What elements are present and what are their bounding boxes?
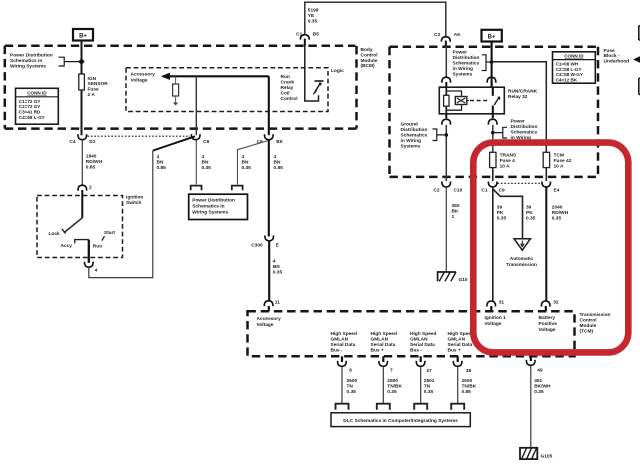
svg-text:0.35: 0.35 [497,215,507,221]
label Ignition Switch [126,195,143,207]
svg-text:C1: C1 [296,32,302,38]
svg-text:Automatic: Automatic [510,256,534,262]
wire ignition run feed loop [89,151,153,278]
svg-text:GMLAN: GMLAN [448,337,466,343]
connector pin 31 (TCM Ignition 1 Voltage) [487,300,504,312]
svg-text:BN: BN [242,160,249,166]
wire drop to C8 [195,76,197,135]
svg-text:49: 49 [537,368,543,374]
svg-text:Serial Data: Serial Data [371,342,396,348]
svg-text:C2=58 L-GY: C2=58 L-GY [556,67,582,72]
svg-text:CONN ID: CONN ID [564,54,584,59]
connector pin 11 (TCM top) [264,300,280,312]
connector on relay feed (B+ wire) [487,77,496,87]
svg-text:0.35: 0.35 [534,389,544,395]
dotted connector boundary line C9 to E4 [498,182,543,184]
connector C1 pin B5 (BCM top) [296,32,319,46]
svg-text:0.35: 0.35 [347,389,357,395]
svg-text:Distribution: Distribution [511,124,538,130]
terminal bracket (C8 branch) [191,186,202,191]
highlight annotation (red rounded rectangle) [473,143,628,353]
svg-text:C9: C9 [499,188,505,194]
svg-text:BK: BK [452,208,459,214]
svg-text:Accessory: Accessory [257,316,282,322]
svg-text:Positive: Positive [539,321,558,327]
svg-text:PK: PK [497,210,504,216]
svg-text:High Speed: High Speed [331,331,357,337]
svg-text:Fuse 4: Fuse 4 [500,158,516,164]
svg-text:Relay: Relay [281,85,294,91]
svg-text:Control: Control [580,318,597,324]
svg-text:CONN ID: CONN ID [27,91,47,96]
svg-text:YE: YE [308,13,315,19]
svg-text:4: 4 [95,267,98,273]
box DLC Schematics in Computer/Integrating Systems [331,413,470,427]
relay contact linkage (dashed) [470,100,488,102]
svg-text:Logic: Logic [331,68,344,74]
ground G10 [438,272,468,283]
svg-text:C1=08 WH: C1=08 WH [556,61,579,66]
wire C300 to TCM pin 11 (thick) [268,241,270,301]
label 4 BN 0.85 [274,154,284,171]
note Ground Distribution Schematics in Wiring Systems with bracket [401,122,449,150]
battery feed B+ (left) [73,29,93,41]
svg-text:TN/BK: TN/BK [462,384,477,390]
svg-text:Accy: Accy [61,243,73,249]
svg-text:Fuse: Fuse [604,48,616,54]
relay switch contact [493,87,501,114]
connector below relay (load side) [488,114,497,153]
svg-text:11: 11 [275,300,280,306]
svg-text:DLC Schematics in Computer/Int: DLC Schematics in Computer/Integrating S… [343,418,458,424]
svg-text:0.35: 0.35 [202,165,212,171]
svg-text:Underhood: Underhood [604,59,630,65]
svg-text:TN/BK: TN/BK [387,384,402,390]
svg-text:2040: 2040 [552,204,563,210]
connector pin 49 (TCM bottom ground) [526,356,543,373]
svg-text:Voltage: Voltage [131,78,148,84]
svg-text:0.35: 0.35 [273,269,283,275]
svg-text:Control: Control [281,96,298,102]
svg-text:2: 2 [89,185,92,191]
svg-text:38: 38 [466,368,472,374]
svg-text:Bus -: Bus - [410,348,422,354]
svg-text:6: 6 [349,368,352,374]
svg-text:C1: C1 [481,188,487,194]
label Run Crank Relay Coil Control [281,74,298,102]
svg-text:5199: 5199 [308,8,319,14]
wire 2500 TN/BK 0.35 (pin 7) [383,367,402,404]
svg-text:C2=72 GY: C2=72 GY [19,104,41,109]
svg-text:4: 4 [242,154,245,160]
svg-text:2500: 2500 [347,378,358,384]
svg-text:TN: TN [424,384,431,390]
svg-text:SENSOR: SENSOR [88,81,109,87]
svg-text:39: 39 [497,204,503,210]
svg-text:GMLAN: GMLAN [371,337,389,343]
label Transmission Control Module (TCM) [580,312,611,335]
svg-text:C4=68 L-GY: C4=68 L-GY [19,115,45,120]
connector pin E4 (fuse block bottom) [542,182,560,194]
svg-text:B5: B5 [313,32,319,38]
svg-text:0.85: 0.85 [462,389,472,395]
terminal bracket (pin 6 wire) [336,404,349,410]
svg-text:High Speed: High Speed [448,331,474,337]
svg-text:10 A: 10 A [500,163,510,169]
svg-text:Switch: Switch [126,200,142,206]
wire drop to B5 (thick) [268,76,270,135]
svg-text:RD/WH: RD/WH [552,210,569,216]
svg-text:G10: G10 [459,277,468,283]
svg-text:4: 4 [202,154,205,160]
off-page arrow (right edge) [633,56,640,62]
svg-text:0.35: 0.35 [308,19,318,25]
svg-text:Power Distribution: Power Distribution [192,197,235,203]
svg-text:BN: BN [202,160,209,166]
svg-text:G105: G105 [541,453,553,459]
connector C300 pin E [251,235,279,248]
svg-text:Schematics: Schematics [401,133,428,139]
label RUN/CRANK Relay 32 [508,88,538,100]
label High Speed GMLAN Serial Data Bus + (pin 38) [448,331,474,354]
label 4 BN 0.35 [242,154,252,171]
wire Accessory Voltage arrow line [161,73,269,80]
wire TRANS fuse to connector [492,168,494,181]
wire 5199 YE top rail [305,2,446,36]
label Ignition 1 Voltage (TCM input) [485,315,507,327]
svg-text:C2: C2 [434,32,440,38]
svg-text:2500: 2500 [462,378,473,384]
fuse TRANS Fuse 4 10A [490,152,517,169]
wire 39 PK to TCM pin 31 [493,187,507,301]
wire C8 to ignition (thick diagonal) [153,136,195,150]
Transmission Control Module (TCM) dashed box [248,311,575,356]
note Power Distribution Schematics (relay output) with bracket [491,119,537,147]
svg-text:Crank: Crank [281,79,295,85]
svg-text:2 A: 2 A [88,92,96,98]
svg-text:4: 4 [274,154,277,160]
svg-text:0.35: 0.35 [387,389,397,395]
svg-text:Serial Data: Serial Data [331,342,356,348]
svg-text:Voltage: Voltage [485,321,502,327]
note Power Distribution Schematics in Wiring Systems (left) with bracket [10,53,85,70]
connector C2 pin C10 (fuse block bottom) [433,182,462,194]
svg-text:C10: C10 [454,188,463,194]
svg-text:Systems: Systems [453,71,473,77]
svg-text:Accessory: Accessory [131,72,156,78]
svg-text:Distribution: Distribution [453,55,480,61]
svg-text:Distribution: Distribution [401,127,428,133]
svg-text:Block -: Block - [604,53,620,59]
svg-text:C3=41 RD: C3=41 RD [19,110,41,115]
resistor (BCM internal pull-up) [173,76,179,105]
svg-text:Ignition: Ignition [126,195,143,201]
svg-text:BN: BN [274,160,281,166]
svg-text:C4=12 BK: C4=12 BK [556,78,578,83]
svg-text:in Wiring: in Wiring [401,138,422,144]
svg-text:Schematics in: Schematics in [192,203,224,209]
wire 1840 RD/WH 0.85 [82,140,102,185]
svg-text:Transmission: Transmission [580,312,611,318]
svg-text:0.35: 0.35 [552,215,562,221]
svg-text:Schematics in: Schematics in [10,58,42,64]
svg-text:0.85: 0.85 [86,165,96,171]
wire branch to TCM fuse [492,62,547,153]
svg-text:C4: C4 [69,139,75,145]
svg-text:High Speed: High Speed [410,331,436,337]
svg-text:TN: TN [347,384,354,390]
svg-text:Wiring Systems: Wiring Systems [10,64,46,70]
label High Speed GMLAN Serial Data Bus + (pin 7) [371,331,397,354]
connector 2 (ignition switch) [78,185,92,196]
svg-text:Module: Module [580,323,597,329]
wire 2500 TN/BK 0.85 (pin 38) [458,367,477,404]
wire C8 branch to power distribution [195,140,197,185]
note Power Distribution Schematics (fuse block top) with bracket [453,49,494,77]
connector pin 6 (TCM bottom) [338,356,353,373]
label Accessory Voltage (BCM output) [131,72,156,84]
terminal bracket (B5 branch) [232,186,243,191]
svg-text:BK/WH: BK/WH [534,384,551,390]
connector C2 pin A5 (fuse block top) [434,32,460,47]
ground G105 [520,448,553,460]
svg-text:Schematics: Schematics [511,130,538,136]
connector C1 pin C9 (fuse block bottom) [481,182,505,194]
svg-text:Body: Body [361,47,373,53]
svg-text:in Wiring: in Wiring [453,66,474,72]
connector C6 pin B5 (BCM bottom) [257,134,283,145]
terminal bracket (pin 7 wire) [377,404,390,410]
svg-text:(BCM): (BCM) [361,63,376,69]
svg-text:Power: Power [511,119,526,125]
svg-text:E4: E4 [554,188,560,194]
svg-text:31: 31 [499,300,505,306]
svg-text:1: 1 [452,214,455,220]
ignition switch dashed box [37,196,123,258]
label 5199 YE 0.35 [308,8,319,25]
svg-text:C1=72 GY: C1=72 GY [19,99,41,104]
svg-text:A5: A5 [454,32,460,38]
svg-text:Serial Data: Serial Data [448,342,473,348]
battery feed B+ (right) [482,30,502,42]
transistor driver (BCM logic output) [305,43,324,102]
wire 2501 TN 0.35 (pin 37) [421,367,435,404]
label Accessory Voltage (TCM input) [257,316,282,328]
fuse TCM Fuse 42 10A [543,152,571,169]
wire 451 BK/WH 0.35 to G105 [531,366,551,448]
splice triangle Automatic Transmission [506,239,537,268]
ignition switch internals [49,196,116,263]
connector pin 37 (TCM bottom) [416,356,432,374]
wire B+ to IGN SENSOR fuse [81,41,83,136]
svg-text:TRANS: TRANS [500,152,517,158]
svg-text:(TCM): (TCM) [580,329,594,335]
off-page box fragment (right) [639,78,640,94]
label Fuse Block - Underhood [604,48,630,65]
svg-text:Run: Run [93,243,102,249]
svg-text:1840: 1840 [86,154,97,160]
wire B5 branch to power distribution [238,141,269,185]
label Body Control Module (BCM) [361,47,378,69]
svg-text:C2: C2 [433,188,439,194]
CONN ID table (BCM) [16,88,59,124]
wire 39 PK branch to automatic transmission [493,190,535,239]
relay coil circuit [444,87,469,114]
svg-text:Module: Module [361,58,378,64]
svg-text:C8: C8 [203,139,209,145]
svg-text:32: 32 [553,300,559,306]
svg-text:Relay 32: Relay 32 [508,94,528,100]
svg-text:39: 39 [526,204,532,210]
svg-text:Voltage: Voltage [257,322,274,328]
svg-text:Transmission: Transmission [506,262,537,268]
svg-text:4: 4 [157,154,160,160]
relay RUN/CRANK Relay 32 box [439,87,504,114]
connector pin 38 (TCM bottom) [453,356,471,374]
box Power Distribution Schematics in Wiring Systems [189,194,248,219]
wire 350 BK 1 to G10 [446,187,460,272]
svg-text:IGN: IGN [88,76,97,82]
svg-text:0.35: 0.35 [526,215,536,221]
svg-text:Power Distribution: Power Distribution [10,53,53,59]
wire B+ to RUN/CRANK relay (thick) [491,42,493,88]
svg-text:Systems: Systems [401,144,421,150]
label High Speed GMLAN Serial Data Bus - (pin 6) [331,331,357,354]
svg-text:Serial Data: Serial Data [410,342,435,348]
svg-text:2501: 2501 [424,378,435,384]
fuse block underhood dashed box [390,47,599,177]
svg-text:0.35: 0.35 [242,165,252,171]
dotted connector boundary line C4 to C8 [88,135,191,137]
svg-text:BN: BN [273,264,280,270]
connector C8 (BCM bottom) [191,134,209,145]
svg-text:D1: D1 [89,139,95,145]
svg-text:Ignition 1: Ignition 1 [485,315,507,321]
svg-text:TCM: TCM [554,152,564,158]
svg-text:451: 451 [534,378,542,384]
off-page box fragment (top right) [639,26,640,40]
terminal bracket (pin 37 wire) [414,404,427,410]
label 4 BN 0.35 [202,154,212,171]
svg-text:2500: 2500 [387,378,398,384]
svg-text:Voltage: Voltage [539,327,556,333]
svg-text:B5: B5 [276,139,282,145]
svg-text:GMLAN: GMLAN [331,337,349,343]
connector pin 32 (TCM Battery Positive Voltage) [541,300,558,312]
connector below relay (ground side) [442,114,451,181]
svg-text:Start: Start [104,230,115,236]
wire TCM fuse to connector [545,168,547,181]
svg-text:0.85: 0.85 [274,165,284,171]
svg-text:RUN/CRANK: RUN/CRANK [508,88,538,94]
svg-text:Run: Run [281,74,290,80]
label Battery Positive Voltage (TCM input) [539,315,558,333]
svg-text:7: 7 [390,368,393,374]
CONN ID table (fuse block) [553,52,596,83]
svg-text:37: 37 [426,368,432,374]
connector C4 pin D1 (BCM bottom) [69,134,95,145]
svg-text:B+: B+ [79,34,87,40]
wire 2040 RD/WH to TCM pin 32 (thick) [546,187,568,301]
svg-text:C3=58 W-GY: C3=58 W-GY [556,72,583,77]
svg-text:Lock: Lock [49,231,61,237]
svg-text:10 A: 10 A [554,163,564,169]
svg-text:Schematics: Schematics [453,60,480,66]
svg-text:BN: BN [157,160,164,166]
Body Control Module (BCM) dashed box [5,46,357,129]
label High Speed GMLAN Serial Data Bus - (pin 37) [410,331,436,354]
svg-text:RD/WH: RD/WH [86,159,103,165]
Logic dashed box in BCM [126,68,328,112]
connector 4 (ignition switch) [84,262,97,274]
svg-text:4: 4 [273,258,276,264]
svg-text:Fuse: Fuse [88,87,100,93]
wire B5 down to C300 (thick) [268,140,270,237]
svg-text:Battery: Battery [539,315,556,321]
connector pin 7 (TCM bottom) [379,356,393,373]
fuse IGN SENSOR 2A [79,74,108,98]
svg-text:Wiring Systems: Wiring Systems [192,209,228,215]
svg-text:0.85: 0.85 [157,165,167,171]
connector on relay feed (C2/A5 wire) [442,42,451,87]
svg-text:Bus +: Bus + [448,348,461,354]
terminal bracket (pin 38 wire) [451,404,464,410]
svg-text:350: 350 [452,203,460,209]
svg-text:GMLAN: GMLAN [410,337,428,343]
svg-text:C300: C300 [251,242,263,248]
label 4 BN 0.35 [273,258,283,275]
svg-text:High Speed: High Speed [371,331,397,337]
wire 2500 TN 0.35 (pin 6) [342,367,358,404]
svg-text:Coil: Coil [281,90,290,96]
svg-text:Power: Power [453,49,468,55]
svg-text:PK: PK [526,210,533,216]
svg-text:Control: Control [361,52,378,58]
svg-text:0.35: 0.35 [424,389,434,395]
label 4 BN 0.85 (ignition feed) [157,154,167,171]
svg-text:Ground: Ground [401,122,418,128]
svg-text:Bus +: Bus + [371,348,384,354]
svg-text:Fuse 42: Fuse 42 [554,158,572,164]
svg-text:B+: B+ [488,35,496,41]
svg-text:Bus -: Bus - [331,348,343,354]
